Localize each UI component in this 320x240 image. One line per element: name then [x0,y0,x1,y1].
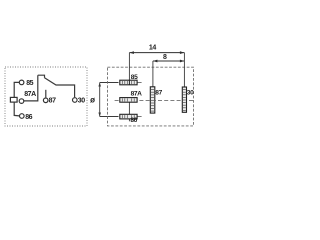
wire coil to 86 [14,102,19,116]
terminal circle 85 [19,80,24,85]
column centerline above blade 85 (ext of dim 14) [128,53,130,85]
terminal circle 86 [20,114,25,119]
svg-text:87A: 87A [131,91,143,98]
wire 87A to NC contact riser [24,75,38,101]
schematic outline (dotted box) [5,67,87,126]
NC fixed contact bar with hook [38,75,45,78]
svg-text:8: 8 [163,54,167,61]
NO contact stub 87 [45,90,47,98]
blade terminal 86 [120,114,137,119]
svg-text:87: 87 [155,89,162,96]
centerline row 85 dash [138,82,142,84]
dimension 8 [153,60,185,62]
blade terminal 30 (vertical) [182,87,186,112]
terminal circle 87 [43,98,48,103]
centerline row 86 dash [138,116,142,118]
coil K1 [10,97,17,102]
column centerline 87A-86 [128,102,130,121]
footprint outline (dashed box) [108,67,194,126]
vertical dimension line with arrows (pin spacing) [100,83,119,117]
extension line to blade 30 [183,53,185,87]
svg-text:87A: 87A [24,91,36,98]
svg-text:85: 85 [26,80,33,87]
svg-text:14: 14 [149,45,156,52]
wire 85 to coil [14,82,19,97]
svg-text:30: 30 [78,98,85,105]
blade terminal 85 [120,80,137,85]
terminal circle 30 [73,98,78,103]
svg-text:86: 86 [130,117,137,124]
terminal circle 87A [19,99,24,104]
dimension 14 [129,52,184,54]
svg-text:85: 85 [131,74,138,81]
svg-text:86: 86 [25,114,32,121]
centerline row 87A dashed [115,100,194,102]
svg-text:87: 87 [49,98,56,105]
svg-text:30: 30 [187,89,194,96]
blade terminal 87A [120,98,137,103]
svg-text:ø: ø [90,96,95,105]
switch arm to terminal 30 [45,78,75,98]
blade terminal 87 (vertical) [150,87,155,113]
extension line to blade 87 [152,61,154,87]
